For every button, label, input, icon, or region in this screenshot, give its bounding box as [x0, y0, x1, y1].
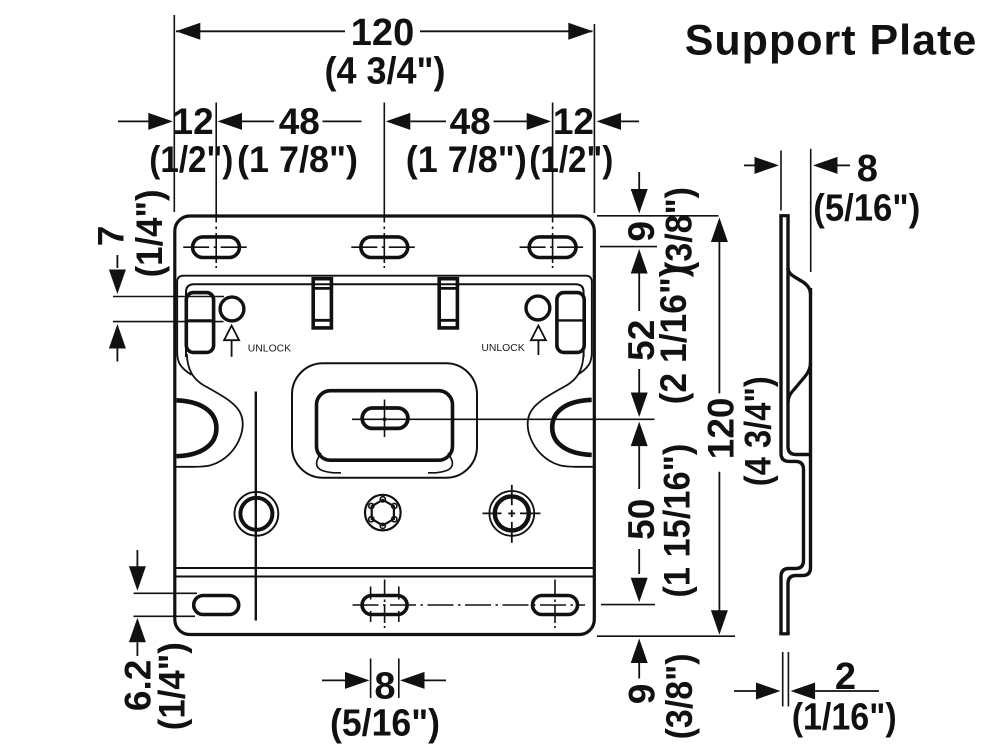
dim 120 top line: [176, 30, 345, 32]
dim row arrow into right edge: [597, 113, 622, 130]
svg-text:120: 120: [351, 12, 414, 54]
lower left double circle outer: [235, 492, 279, 536]
clip left: [313, 279, 331, 328]
torx vertex circles: [369, 497, 397, 529]
svg-text:Support Plate: Support Plate: [685, 17, 978, 65]
dim 7 leader upper: [113, 296, 224, 298]
top slot 3 centerlines: [552, 103, 554, 269]
dim 2 left arrow: [791, 683, 816, 700]
dim 9 top shaft: [638, 172, 640, 190]
inner recess rounded top: [186, 284, 584, 357]
dim 48 left arrow: [218, 113, 243, 130]
svg-text:(1/4"): (1/4"): [151, 642, 192, 730]
dim 8 bottom ext lines: [370, 659, 372, 699]
top slot 1: [193, 237, 240, 258]
svg-text:8: 8: [857, 148, 878, 190]
dim 48 right trailing line: [494, 120, 528, 122]
svg-text:48: 48: [450, 101, 491, 142]
svg-text:(3/8"): (3/8"): [658, 187, 699, 273]
dim 8 side leader right: [838, 164, 851, 166]
unlock arrow right shaft: [537, 340, 539, 355]
side view bump top transition: [788, 268, 811, 294]
flange line with recess side walls: [177, 276, 592, 375]
svg-text:(4 3/4"): (4 3/4"): [738, 376, 779, 486]
bend double line lower: [176, 576, 593, 578]
top slot 3: [529, 237, 576, 258]
svg-text:UNLOCK: UNLOCK: [248, 344, 291, 355]
dim 8 side ext line right: [810, 149, 812, 272]
lower right circle inner: [495, 496, 529, 530]
left tab thick U: [177, 400, 217, 456]
dim 9 bottom up arrow: [631, 639, 648, 664]
side view bottom cap: [779, 632, 789, 635]
dim 120 right up arrow: [711, 218, 728, 243]
dim 120 top extension line left: [173, 15, 175, 212]
bottom slot center: [362, 596, 407, 615]
left cutout S-curve: [176, 354, 243, 467]
dim 48 right arrow at center: [386, 113, 411, 130]
side view bump and lower front line: [788, 288, 811, 634]
svg-text:(5/16"): (5/16"): [330, 703, 440, 745]
central slot horizontal centerline to right stack: [352, 418, 655, 420]
dim 2 leader left: [734, 690, 758, 692]
dim row arrow into left edge: [148, 113, 173, 130]
dim 7 line lower: [116, 349, 118, 362]
svg-text:(1/4"): (1/4"): [129, 189, 170, 277]
dim 7 up arrow: [109, 324, 126, 349]
dim 8 side left arrow: [813, 157, 838, 174]
torx screw outer circle: [365, 495, 401, 531]
svg-text:12: 12: [173, 101, 214, 142]
svg-text:48: 48: [279, 101, 320, 142]
svg-text:(1 7/8"): (1 7/8"): [237, 139, 358, 180]
side view front top strip: [788, 216, 811, 455]
top slot 1 centerlines: [215, 103, 217, 269]
unlock arrow left head: [224, 326, 239, 341]
unlock arrow left shaft: [231, 340, 233, 357]
bottom slot right vertical centerline: [554, 580, 556, 629]
bend double line upper: [176, 567, 593, 569]
latch left body: [186, 293, 213, 353]
dim 50 down arrow: [631, 578, 648, 603]
side view top cap: [779, 214, 789, 217]
dim 6.2 down arrow: [129, 566, 146, 591]
dim 7 leader lower: [113, 321, 224, 323]
central slot: [362, 408, 408, 428]
svg-text:(4 3/4"): (4 3/4"): [325, 51, 446, 93]
latch left divider: [186, 319, 213, 321]
dim 52 shaft lower: [638, 369, 640, 393]
svg-text:9: 9: [622, 684, 663, 705]
svg-text:(1/2"): (1/2"): [529, 139, 613, 180]
svg-text:(1/16"): (1/16"): [792, 697, 897, 739]
dish bottom arc left: [317, 453, 341, 473]
dim 48 left line: [242, 120, 274, 122]
right stack boundary line slot row: [600, 246, 657, 248]
top slot 2 centerlines: [383, 103, 385, 269]
dim 8 bottom right arrow: [345, 672, 370, 689]
dim 9 top down arrow: [631, 189, 648, 214]
dim 52 up arrow: [631, 249, 648, 274]
clip right: [439, 279, 457, 328]
bottom slot left: [194, 596, 239, 615]
svg-text:120: 120: [701, 398, 742, 460]
bottom slot center vertical centerline: [384, 580, 386, 629]
dim 120 right down arrow: [711, 610, 728, 635]
dim 2 ext lines: [782, 652, 784, 707]
dim 2 leader right: [815, 690, 879, 692]
dim 6.2 leader lower: [134, 615, 196, 617]
top slot 2: [361, 237, 408, 258]
dim 52 shaft upper: [638, 274, 640, 312]
dim 50 shaft upper: [638, 446, 640, 489]
latch left pin circle: [220, 297, 244, 321]
dish bottom arc right: [428, 453, 452, 473]
svg-text:9: 9: [621, 221, 662, 242]
dim 120 right shaft lower: [718, 472, 720, 611]
svg-text:(2 1/16"): (2 1/16"): [653, 265, 694, 404]
dim 50 shaft lower: [638, 549, 640, 574]
side view dish inner diagonal: [788, 362, 811, 403]
right stack boundary line bottom slots: [601, 604, 655, 606]
right stack boundary line plate bottom: [597, 635, 735, 637]
svg-text:UNLOCK: UNLOCK: [481, 343, 524, 354]
dim 48 right line: [410, 120, 446, 122]
svg-text:(1 15/16"): (1 15/16"): [657, 444, 698, 598]
lower left double circle inner: [240, 498, 272, 530]
latch right pin circle: [526, 296, 550, 320]
dim 120 right shaft upper: [718, 242, 720, 393]
lower right circle crosshair: [483, 485, 541, 543]
svg-text:2: 2: [835, 656, 856, 698]
central slot center dot: [383, 417, 387, 421]
dim 8 bottom leader left: [322, 679, 348, 681]
right stack boundary line top: [597, 215, 719, 217]
central dish inner: [317, 391, 453, 461]
dim 2 right arrow: [756, 683, 781, 700]
dim 6.2 line upper: [136, 550, 138, 567]
svg-text:8: 8: [374, 666, 395, 708]
dim 8 side right arrow: [755, 157, 780, 174]
dim 50 up arrow: [631, 422, 648, 447]
dim 7 down arrow: [109, 270, 126, 295]
dim 8 side ext line left: [780, 151, 782, 211]
plate outline: [175, 216, 595, 635]
bottom slot right: [533, 596, 578, 615]
central slot vertical centerline: [384, 400, 386, 438]
dim 6.2 line lower: [136, 642, 138, 656]
slot width ticks: [371, 587, 399, 623]
svg-text:(1 7/8"): (1 7/8"): [406, 139, 527, 180]
dim 7 line upper: [116, 255, 118, 268]
svg-text:(1/2"): (1/2"): [149, 139, 233, 180]
fold line: [255, 392, 257, 621]
clip left top line: [313, 287, 331, 290]
dim 6.2 leader upper: [134, 592, 198, 594]
unlock arrow right head: [531, 326, 546, 341]
dim 9 bottom shaft: [638, 663, 640, 679]
clip left bottom line: [313, 319, 331, 322]
dim row leader left: [118, 120, 150, 122]
dim 8 side leader left: [744, 164, 757, 166]
right cutout S-curve: [528, 354, 593, 467]
dim 48 left trailing line: [323, 120, 362, 122]
dim row leader right: [621, 120, 639, 122]
side view back line: [781, 216, 804, 634]
svg-text:7: 7: [90, 226, 131, 247]
svg-text:12: 12: [553, 101, 594, 142]
dim 52 down arrow: [631, 393, 648, 418]
clip right top line: [439, 287, 457, 290]
dim 120 top arrows: [176, 23, 201, 40]
torx hexagon: [372, 500, 394, 526]
dim 120 top extension line right: [593, 24, 595, 213]
dim 8 bottom left arrow: [400, 672, 425, 689]
dim 48 right arrow: [527, 113, 552, 130]
clip right bottom line: [439, 319, 457, 322]
dim 8 bottom leader right: [425, 679, 447, 681]
dim 6.2 up arrow: [129, 618, 146, 643]
central dish outer: [292, 363, 477, 478]
bottom slots horizontal centerline: [353, 604, 586, 606]
latch right divider: [557, 319, 584, 321]
right tab thick U: [552, 400, 592, 455]
svg-text:(3/8"): (3/8"): [659, 653, 700, 739]
latch right body: [557, 293, 584, 353]
lower right circle outer: [489, 491, 534, 536]
svg-text:(5/16"): (5/16"): [813, 187, 920, 229]
